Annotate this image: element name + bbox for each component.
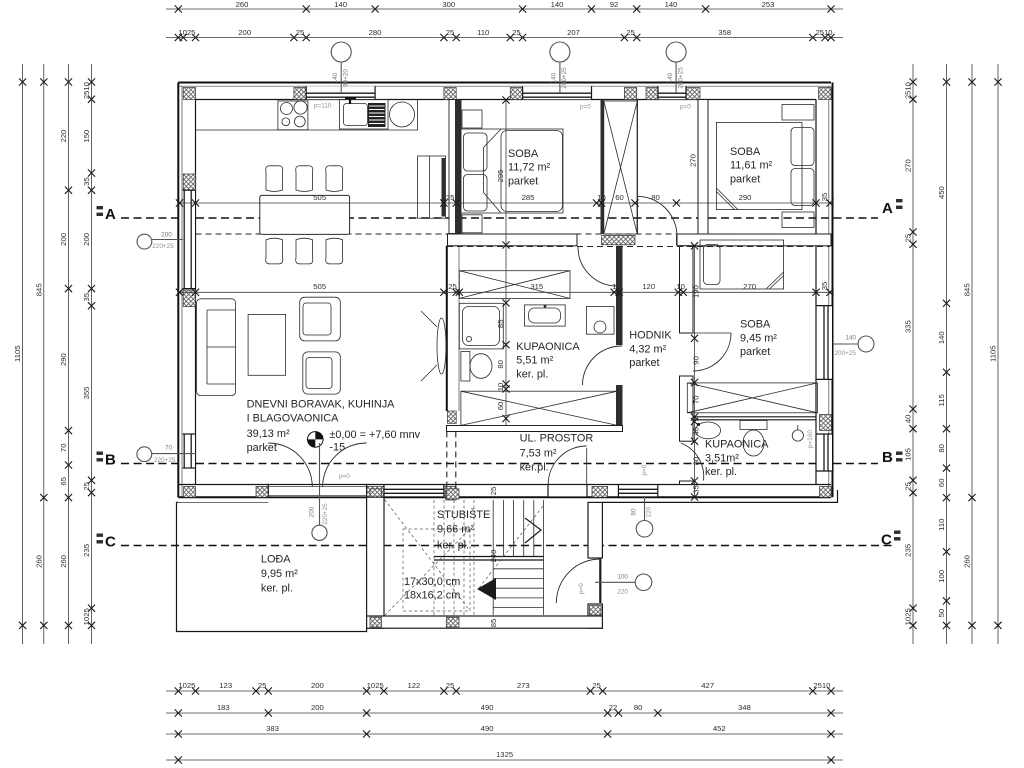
window right RW2 (kupaonica 3.51) [820,434,833,471]
svg-text:200+25: 200+25 [834,350,856,357]
svg-text:SOBA: SOBA [508,148,539,160]
door arc: kupaonica 5.51 right [583,346,623,385]
interior wall P4 (vestibule / soba 11.61) [698,100,708,246]
right dimension column 3 (845/260) [971,64,973,644]
dining table [260,195,350,234]
svg-text:1105: 1105 [989,345,998,362]
closet X (niche) [604,101,638,234]
svg-text:150: 150 [82,130,91,143]
svg-text:235: 235 [82,544,91,557]
svg-text:2510: 2510 [815,28,832,37]
svg-text:280: 280 [369,28,382,37]
svg-text:235: 235 [904,544,913,557]
svg-text:25: 25 [446,681,455,690]
svg-text:p=0: p=0 [580,104,591,111]
svg-text:-15: -15 [329,442,345,454]
bed soba 11.72 [461,129,564,213]
svg-text:9,45 m²: 9,45 m² [740,333,777,345]
svg-text:1025: 1025 [82,608,91,625]
loggia outline [177,502,367,631]
chairs bottom row [266,238,283,264]
svg-text:KUPAONICA: KUPAONICA [516,341,580,353]
svg-text:505: 505 [313,193,326,202]
svg-text:110: 110 [937,519,946,531]
svg-text:35: 35 [692,485,701,494]
svg-text:90: 90 [692,356,701,365]
interior wall P9 (kupaonica 5.51 / ul. prostor) [447,426,623,432]
svg-text:220+25: 220+25 [322,503,329,525]
svg-text:10: 10 [496,383,505,392]
svg-text:25: 25 [296,28,305,37]
svg-text:383: 383 [266,724,279,733]
svg-text:80: 80 [692,457,701,466]
svg-text:220: 220 [59,130,68,143]
svg-text:80: 80 [496,360,505,369]
stair chevron arrow [525,518,541,543]
svg-text:200: 200 [59,233,68,246]
svg-text:90+20: 90+20 [343,69,350,87]
svg-text:B: B [882,449,893,466]
svg-text:60: 60 [615,193,624,202]
outer wall: right [832,83,834,498]
svg-text:35: 35 [820,282,829,291]
bottom dimension chain row 2 [166,712,843,714]
dashed boundary living/ul.prostor [446,432,448,491]
tall unit / fridge [418,156,446,218]
svg-text:2510: 2510 [82,82,91,99]
kitchen counter [196,100,418,131]
svg-text:parket: parket [508,176,538,188]
svg-text:183: 183 [217,703,230,712]
sink unit [340,100,389,130]
svg-text:9,66 m²: 9,66 m² [437,524,474,536]
svg-text:25: 25 [82,482,91,491]
coffee table [248,314,286,375]
interior wall P6 (kupaonica right) [616,246,623,345]
svg-text:25: 25 [258,681,267,690]
svg-text:300: 300 [442,0,455,9]
svg-text:220+25: 220+25 [154,457,176,464]
interior wall P2 (soba 11.72 / closet) [601,100,605,235]
secondary dashed line below A (over walls) [196,233,831,235]
svg-text:39,13 m²: 39,13 m² [247,428,290,440]
interior dim line y=203 [180,202,831,204]
WC 3.51 [740,421,767,430]
svg-text:ker. pl.: ker. pl. [437,540,469,552]
marker c1 kitchen window [331,42,351,62]
svg-text:200: 200 [311,703,324,712]
cabinet 5.51 [586,307,614,335]
svg-text:140: 140 [551,0,564,9]
door arc: kupaonica 3.51 [681,443,704,481]
right dimension column 4 (1105) [997,64,999,644]
svg-text:35: 35 [82,293,91,302]
svg-text:4,32 m²: 4,32 m² [629,344,666,356]
shower 5.51 [459,303,503,349]
crosshatched wall piers [183,88,195,100]
svg-text:200+25: 200+25 [561,67,568,89]
svg-text:HODNIK: HODNIK [629,330,672,342]
svg-text:140: 140 [334,0,347,9]
door arc: ul. prostor entrance from stairhall [586,448,588,485]
svg-text:200: 200 [238,28,251,37]
svg-text:80: 80 [634,703,643,712]
svg-text:200: 200 [82,233,91,246]
svg-text:220: 220 [645,506,652,517]
svg-text:110: 110 [477,28,489,37]
svg-text:2510: 2510 [813,681,830,690]
svg-text:452: 452 [713,724,726,733]
svg-text:p=0: p=0 [680,104,691,111]
window W3 top (soba 11.61, p=0) [658,86,686,99]
svg-text:11,72 m²: 11,72 m² [508,162,551,174]
svg-text:845: 845 [34,283,43,296]
svg-text:22: 22 [609,703,618,712]
svg-text:10: 10 [597,193,606,202]
svg-text:DNEVNI BORAVAK, KUHINJA: DNEVNI BORAVAK, KUHINJA [247,399,396,411]
svg-text:17x30,0 cm: 17x30,0 cm [404,576,460,588]
svg-text:2510: 2510 [904,82,913,99]
svg-text:11,61 m²: 11,61 m² [730,160,773,172]
svg-text:490: 490 [481,724,494,733]
opening: loggia french door (200, p=0) [268,485,366,496]
svg-text:358: 358 [718,28,731,37]
svg-text:270: 270 [743,282,756,291]
wall line left of kupaonica column [446,246,448,411]
left dimension column 2 (845/260) [43,64,45,644]
svg-text:p=110: p=110 [314,103,332,110]
svg-text:85: 85 [489,619,498,628]
marker c8 entrance door 100 [635,574,652,591]
svg-text:70: 70 [59,444,68,453]
section line A-A [121,217,878,219]
svg-text:200: 200 [161,232,172,239]
svg-text:1025: 1025 [178,681,195,690]
nightstands soba 11.61 [782,105,814,121]
svg-text:40: 40 [904,415,913,424]
svg-text:25: 25 [904,482,913,491]
section line B-B [121,463,878,465]
svg-text:200: 200 [311,681,324,690]
armchair 2 [303,352,341,394]
svg-text:KUPAONICA: KUPAONICA [705,439,769,451]
svg-text:parket: parket [740,346,770,358]
svg-text:35: 35 [820,193,829,202]
marker c7 entry window 80 [636,521,653,538]
porch slab edge [602,490,837,502]
stair dashed diagonals [385,500,471,612]
svg-text:25: 25 [446,28,455,37]
svg-text:70: 70 [692,395,701,404]
washbasin 5.51 [525,305,566,326]
svg-text:SOBA: SOBA [730,146,761,158]
svg-text:p=0: p=0 [578,583,585,594]
marker c9 soba 9.45 window [858,336,874,352]
window W2 top (140/p=0) [523,86,592,99]
svg-text:10: 10 [676,282,685,291]
washer counter X-box [459,271,570,299]
basin 3.51 [792,430,803,441]
svg-text:260: 260 [963,555,972,568]
window left LW2 (70) [183,434,195,468]
svg-text:p=160: p=160 [807,430,814,448]
svg-text:220+25: 220+25 [152,243,174,250]
svg-text:40: 40 [692,427,701,436]
round basin [390,102,415,127]
svg-text:ker.pl.: ker.pl. [520,462,549,474]
top dimension chain row 2 [166,37,843,39]
stair wall pier hatches [370,617,382,627]
window bottom BW1 (80, entry) [618,486,657,497]
svg-text:270: 270 [689,154,698,167]
svg-text:270: 270 [904,159,913,172]
armchair 1 [300,297,341,341]
svg-text:50: 50 [937,609,946,618]
svg-text:25: 25 [626,28,635,37]
svg-text:70: 70 [165,445,173,452]
svg-text:1105: 1105 [13,345,22,362]
marker c4 left window 200 [137,234,152,249]
tertiary dashed line (hidden edge y=246.5) [447,246,830,248]
marker c5 left window 70 [137,447,152,462]
svg-text:845: 845 [963,283,972,296]
svg-text:ker. pl.: ker. pl. [261,583,293,595]
stair void dashed rectangle [403,529,470,611]
svg-text:p=0: p=0 [339,473,350,480]
svg-text:123: 123 [219,681,232,690]
outer wall: left [177,83,179,498]
svg-text:I BLAGOVAONICA: I BLAGOVAONICA [247,413,340,425]
svg-text:140: 140 [845,335,856,342]
svg-text:140: 140 [665,0,678,9]
svg-text:80: 80 [937,444,946,453]
interior wall P8 (soba 9.45 / kupaonica 3.51) [693,416,816,418]
svg-text:115: 115 [937,394,946,406]
svg-text:85: 85 [496,320,505,329]
right dimension column 1 [912,64,914,644]
svg-text:C: C [105,534,116,551]
svg-text:B: B [105,452,116,469]
svg-text:65: 65 [59,477,68,486]
svg-text:C: C [881,532,892,549]
marker c6 loggia door [312,525,327,540]
door arc: kupaonica 5.51 top [578,247,617,286]
svg-text:273: 273 [517,681,530,690]
door arc: building entrance [599,559,601,603]
svg-text:1325: 1325 [496,750,513,759]
svg-text:parket: parket [730,174,760,186]
left dimension column 1 (1105) [22,64,24,644]
svg-text:ker. pl.: ker. pl. [705,466,737,478]
top dimension chain row 1 [166,8,843,10]
svg-text:ker. pl.: ker. pl. [516,369,548,381]
svg-text:A: A [105,206,116,223]
svg-text:5,51 m²: 5,51 m² [516,355,553,367]
stair risers (solid) [492,500,494,557]
svg-text:207: 207 [567,28,580,37]
svg-text:LOĐA: LOĐA [261,554,291,566]
svg-text:253: 253 [762,0,775,9]
svg-text:parket: parket [247,442,277,454]
sofa [197,299,236,396]
svg-text:450: 450 [937,186,946,199]
svg-text:92: 92 [610,0,619,9]
stair direction arrow (down) [477,578,496,600]
svg-text:140: 140 [332,72,339,83]
svg-text:140: 140 [937,331,946,344]
WC 5.51 [461,352,470,382]
svg-text:260: 260 [236,0,249,9]
svg-text:100: 100 [937,570,946,583]
svg-text:STUBIŠTE: STUBIŠTE [437,508,490,521]
svg-text:427: 427 [701,681,714,690]
shower 3.51 [695,422,720,439]
window stairwell SW (facing loggia) [384,486,444,497]
svg-text:60: 60 [496,402,505,411]
svg-text:290: 290 [739,193,752,202]
stairwell left wall [367,497,384,628]
svg-text:1025: 1025 [904,608,913,625]
svg-text:1025: 1025 [367,681,384,690]
svg-text:25: 25 [448,282,457,291]
window right RW1 (soba 9.45) [820,306,833,380]
marker c3 [666,42,686,62]
left dimension column 3 [68,64,70,644]
bottom dimension chain row 4 (total 1325) [166,759,843,761]
svg-text:260: 260 [34,555,43,568]
svg-text:3,51m²: 3,51m² [705,453,739,465]
outer wall: top, outer face lines [178,82,831,84]
door arc: vestibule / soba 11.72 [636,196,638,234]
dishwasher (striped) [368,103,386,127]
closet niche wall line [636,100,638,234]
nightstands soba 11.72 [462,110,482,128]
svg-text:18x16,2 cm: 18x16,2 cm [404,590,460,602]
svg-text:UL. PROSTOR: UL. PROSTOR [520,433,594,445]
section line C-C [121,545,893,547]
stair lower treads [493,568,543,570]
svg-text:A: A [882,200,893,217]
svg-text:1025: 1025 [178,28,195,37]
svg-text:SOBA: SOBA [740,319,771,331]
cooktop [278,101,308,130]
svg-text:140: 140 [551,72,558,83]
opening: ul.prostor door to stairhall [548,485,587,496]
interior dim line x=694.5 [694,246,696,497]
svg-text:122: 122 [407,681,420,690]
svg-text:±0,00 = +7,60 mnv: ±0,00 = +7,60 mnv [329,429,420,441]
right dimension column 2 [946,64,948,644]
interior wall P7 (hodnik right) [680,246,694,333]
wardrobe soba 9.45 (X-box) [687,383,817,413]
interior wall P1 (living / soba 11.72) [449,100,461,234]
svg-text:200: 200 [309,506,316,517]
svg-text:240: 240 [489,550,498,563]
svg-text:140: 140 [667,72,674,83]
svg-text:100: 100 [617,574,628,581]
svg-text:80: 80 [651,193,660,202]
svg-text:60: 60 [937,479,946,488]
svg-text:200+25: 200+25 [677,67,684,89]
svg-text:7,53 m²: 7,53 m² [520,448,557,460]
svg-text:p=0: p=0 [641,464,648,475]
svg-text:290: 290 [59,353,68,366]
stairwell bottom wall [367,616,603,628]
stairwell right wall [588,502,602,558]
svg-text:315: 315 [530,282,543,291]
svg-text:120: 120 [642,282,655,291]
svg-text:25: 25 [512,28,521,37]
svg-text:220: 220 [617,589,628,596]
chairs top row [266,166,283,192]
marker c2 [550,42,570,62]
svg-text:80: 80 [631,508,638,516]
door arc: soba 9.45 [693,332,731,334]
radiator / opening symbol [437,318,446,374]
stair dashed flight lines [433,500,435,615]
interior dim line x=506 [505,100,507,426]
bed soba 11.61 [716,122,802,209]
svg-text:25: 25 [489,487,498,496]
svg-text:25: 25 [592,681,601,690]
level marker ±0.00 [308,432,324,448]
svg-text:10: 10 [612,282,621,291]
svg-text:295: 295 [496,170,505,183]
bed soba 9.45 [700,240,784,289]
interior dim line y=292.3 [180,291,831,293]
svg-text:190: 190 [692,285,701,298]
svg-text:35: 35 [82,177,91,186]
interior wall P5 (horizontal, y=234) [448,234,578,246]
door arcs: loggia french doors [268,443,312,487]
bottom dimension chain row 1 [166,690,843,692]
outer wall: bottom [178,496,831,498]
svg-text:25: 25 [904,234,913,243]
window W1 top (kitchen, 140/p=110) [306,86,375,99]
svg-text:490: 490 [481,703,494,712]
svg-text:105: 105 [904,448,913,461]
svg-text:9,95 m²: 9,95 m² [261,568,298,580]
svg-text:348: 348 [738,703,751,712]
svg-text:335: 335 [904,320,913,333]
bottom dimension chain row 3 [166,733,843,735]
svg-text:260: 260 [59,555,68,568]
svg-text:355: 355 [82,387,91,400]
window left LW1 (200) [183,190,195,288]
svg-text:parket: parket [629,357,659,369]
lower X-box 5.51 [461,391,617,425]
stair landing double line [434,556,544,558]
svg-text:285: 285 [522,193,535,202]
left dimension column 4 [91,64,93,644]
svg-text:505: 505 [313,282,326,291]
svg-text:25: 25 [446,193,455,202]
